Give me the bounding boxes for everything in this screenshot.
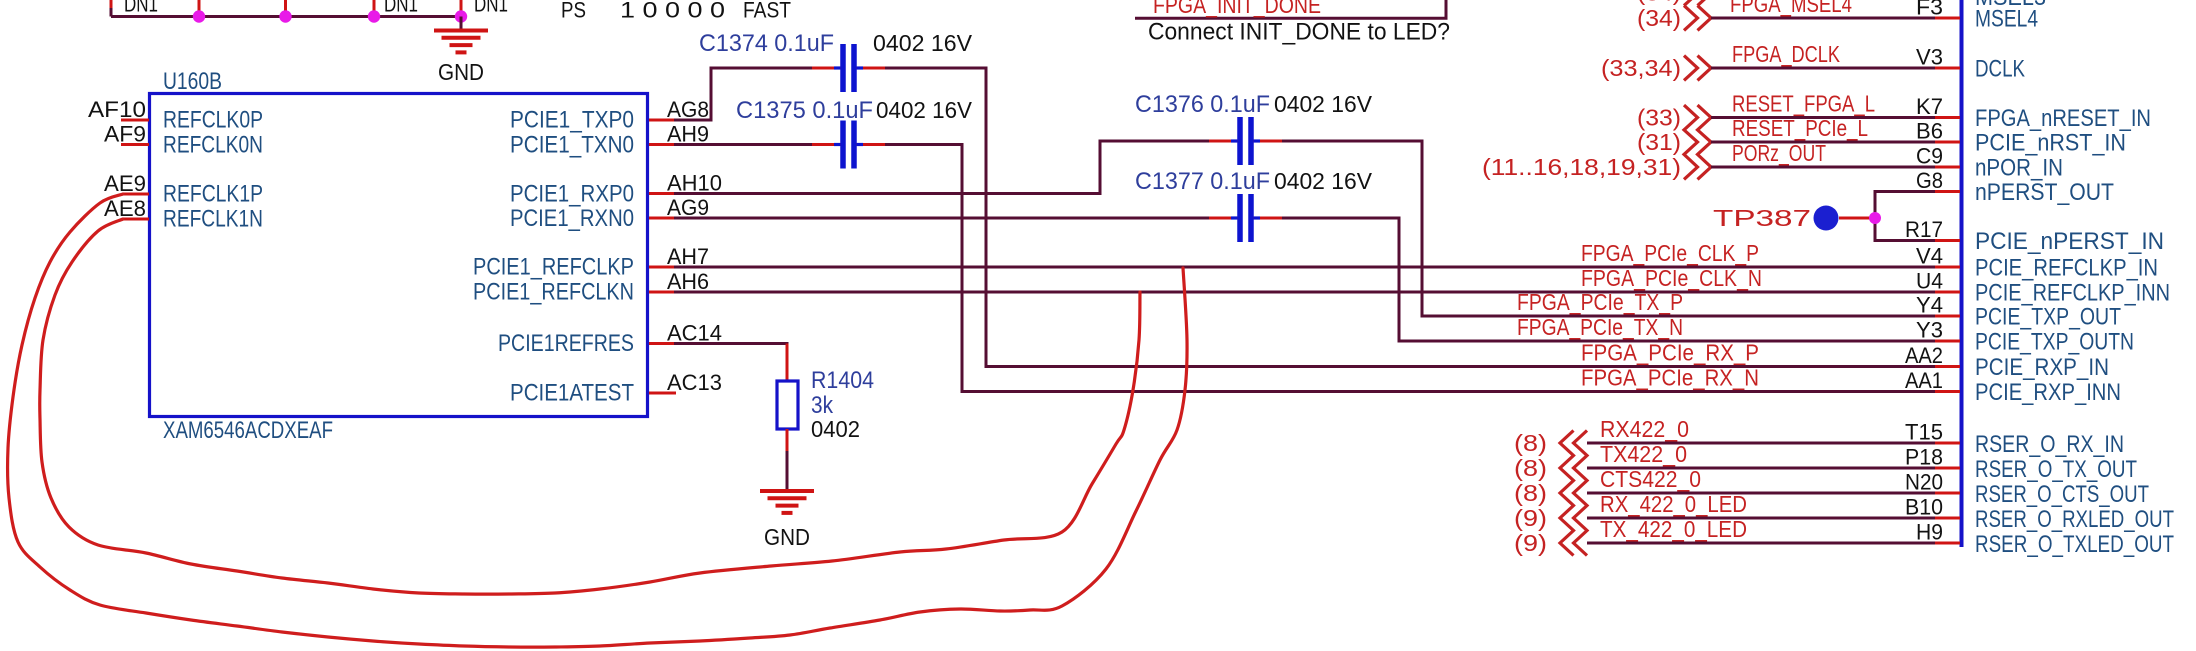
svg-text:RX422_0: RX422_0 (1600, 416, 1689, 442)
svg-text:DN1: DN1 (474, 0, 508, 17)
svg-text:V4: V4 (1916, 244, 1943, 269)
svg-text:DCLK: DCLK (1975, 56, 2025, 83)
capacitor C1374 (840, 44, 846, 92)
svg-text:AH7: AH7 (667, 244, 709, 269)
wire AG9 to C1377 (674, 217, 1228, 220)
svg-text:U4: U4 (1916, 269, 1943, 294)
svg-text:nPOR_IN: nPOR_IN (1975, 155, 2063, 182)
svg-text:FAST: FAST (743, 0, 791, 23)
pin stub red at C1374 right (856, 67, 885, 70)
capacitor C1375 (840, 121, 846, 169)
svg-text:G8: G8 (1916, 168, 1943, 193)
svg-text:C9: C9 (1916, 144, 1943, 169)
svg-text:PCIE_TXP_OUT: PCIE_TXP_OUT (1975, 304, 2121, 331)
pin G8 stub (1935, 190, 1960, 193)
wire AH7 to PCIE_REFCLKP_IN (FPGA_PCIe_CLK_P) (674, 266, 1937, 269)
pin AE9 stub (123, 193, 149, 196)
ground symbol (R1404) (760, 489, 814, 493)
svg-text:FPGA_MSEL4: FPGA_MSEL4 (1730, 0, 1852, 17)
svg-text:N20: N20 (1905, 470, 1943, 495)
pin stub F3 (1935, 17, 1960, 20)
svg-text:R17: R17 (1905, 217, 1943, 242)
wire net FPGA_DCLK (1711, 67, 1937, 70)
svg-text:TX_422_0_LED: TX_422_0_LED (1600, 516, 1747, 542)
pin AE8 stub (123, 218, 149, 221)
svg-text:0402 16V: 0402 16V (876, 97, 973, 123)
svg-text:(8): (8) (1514, 480, 1547, 506)
pin R17 stub (1935, 239, 1960, 242)
svg-text:3k: 3k (811, 392, 834, 419)
svg-text:REFCLK0P: REFCLK0P (163, 107, 263, 134)
pin AF9 stub (121, 143, 149, 146)
pin stub AA1 (1935, 390, 1960, 393)
svg-text:TX422_0: TX422_0 (1600, 441, 1687, 467)
svg-text:GND: GND (438, 59, 484, 85)
svg-text:PCIE_RXP_INN: PCIE_RXP_INN (1975, 379, 2121, 406)
pin AG8 stub (649, 119, 674, 122)
svg-text:PORz_OUT: PORz_OUT (1732, 140, 1826, 166)
junction dot 3 (368, 10, 380, 22)
zigzag off-page chevron MSEL4 row (1684, 6, 1698, 31)
wire net RESET_PCIe_L (1711, 141, 1937, 144)
svg-text:U160B: U160B (163, 68, 222, 95)
svg-text:PCIE1_RXN0: PCIE1_RXN0 (510, 205, 634, 232)
test point TP387 (1814, 206, 1839, 231)
svg-text:P18: P18 (1905, 445, 1943, 470)
svg-text:RSER_O_RXLED_OUT: RSER_O_RXLED_OUT (1975, 506, 2174, 533)
svg-text:F3: F3 (1916, 0, 1943, 20)
svg-text:V3: V3 (1916, 45, 1943, 70)
IC U160B (XAM6546ACDXEAF) symbol box (150, 94, 648, 417)
pin stub (red) top-left vertical 1 (110, 0, 113, 8)
svg-text:0402 16V: 0402 16V (1274, 168, 1373, 194)
wire net RX422_0 (1587, 442, 1937, 445)
svg-text:PCIE1_RXP0: PCIE1_RXP0 (510, 181, 634, 208)
svg-text:0402 16V: 0402 16V (873, 30, 973, 56)
svg-text:RSER_O_CTS_OUT: RSER_O_CTS_OUT (1975, 481, 2149, 508)
svg-text:AC13: AC13 (667, 370, 722, 395)
wire C1374 right to RX_P row (866, 68, 1937, 367)
svg-text:H9: H9 (1916, 520, 1943, 545)
pin AH6 stub (649, 291, 674, 294)
ground symbol (top) (434, 29, 488, 33)
svg-text:FPGA_nRESET_IN: FPGA_nRESET_IN (1975, 105, 2151, 132)
pin stub V4 (1935, 266, 1960, 269)
svg-text:RSER_O_TX_OUT: RSER_O_TX_OUT (1975, 456, 2137, 483)
svg-text:FPGA_PCIe_TX_P: FPGA_PCIe_TX_P (1517, 289, 1683, 315)
svg-text:PCIE_RXP_IN: PCIE_RXP_IN (1975, 354, 2109, 381)
svg-text:T15: T15 (1905, 420, 1943, 445)
pin AG9 stub (649, 217, 674, 220)
pin stub (red) vertical above junction 1 (198, 0, 201, 13)
pin stub AA2 (1935, 365, 1960, 368)
svg-text:AH6: AH6 (667, 269, 709, 294)
pin stub P18 (1935, 467, 1960, 470)
svg-text:MSEL4: MSEL4 (1975, 6, 2038, 33)
junction dot 2 (279, 10, 291, 22)
pin stub red at C1375 left (812, 143, 841, 146)
svg-text:PCIE_nPERST_IN: PCIE_nPERST_IN (1975, 228, 2164, 255)
svg-text:PCIE_TXP_OUTN: PCIE_TXP_OUTN (1975, 329, 2134, 356)
svg-text:FPGA_PCIe_CLK_N: FPGA_PCIe_CLK_N (1581, 265, 1762, 291)
svg-text:AF9: AF9 (104, 122, 146, 147)
pin stub (red) vertical above junction 4 (460, 0, 463, 13)
pin stub Y4 (1935, 315, 1960, 318)
wire AH10 to C1376 (674, 141, 1228, 194)
svg-text:0402 16V: 0402 16V (1274, 91, 1373, 117)
svg-text:RESET_PCIe_L: RESET_PCIe_L (1732, 115, 1868, 141)
svg-text:REFCLK1P: REFCLK1P (163, 181, 263, 208)
wire R1404 to ground (786, 451, 789, 490)
svg-text:AA1: AA1 (1905, 368, 1943, 393)
svg-text:PCIE_REFCLKP_INN: PCIE_REFCLKP_INN (1975, 280, 2170, 307)
zigzag off-page chevron DCLK row (1684, 56, 1698, 81)
pin stub red at C1376 right (1253, 140, 1282, 143)
svg-text:C1376 0.1uF: C1376 0.1uF (1135, 91, 1270, 118)
svg-text:(33,34): (33,34) (1601, 55, 1681, 81)
junction dot 4 (455, 10, 467, 22)
svg-text:(11..16,18,19,31): (11..16,18,19,31) (1482, 154, 1681, 180)
zigzag off-page chevron partial (clipped top row) (1684, 0, 1711, 6)
svg-text:FPGA_PCIe_TX_N: FPGA_PCIe_TX_N (1517, 314, 1683, 340)
svg-text:XAM6546ACDXEAF: XAM6546ACDXEAF (163, 417, 333, 444)
wire net RX_422_0_LED (1587, 517, 1937, 520)
svg-text:K7: K7 (1916, 94, 1943, 119)
junction dot 1 (193, 10, 205, 22)
wire net FPGA_MSEL4 (1711, 17, 1937, 20)
pin AC14 stub (649, 342, 674, 345)
svg-text:Connect INIT_DONE to LED?: Connect INIT_DONE to LED? (1148, 19, 1450, 46)
pin AH7 stub (649, 266, 674, 269)
svg-text:PCIE_nRST_IN: PCIE_nRST_IN (1975, 130, 2126, 157)
wire AG8 to C1374 (674, 68, 831, 120)
svg-text:RSER_O_RX_IN: RSER_O_RX_IN (1975, 431, 2124, 458)
wire AH6 to PCIE_REFCLKP_INN (FPGA_PCIe_CLK_N) (674, 291, 1937, 294)
wire GND drop (460, 17, 463, 30)
svg-text:PS: PS (561, 0, 586, 23)
pin stub U4 (1935, 291, 1960, 294)
svg-text:R1404: R1404 (811, 367, 874, 394)
svg-text:PCIE1_TXP0: PCIE1_TXP0 (510, 107, 634, 134)
wire net TX_422_0_LED (1587, 542, 1937, 545)
svg-text:PCIE1REFRES: PCIE1REFRES (498, 330, 634, 357)
svg-text:AA2: AA2 (1905, 343, 1943, 368)
wire FPGA_INIT_DONE underline box (1135, 0, 1446, 18)
wire red curve REFCLK1N (AE8 to FPGA_PCIe_CLK_N) (40, 219, 1140, 594)
svg-text:FPGA_PCIe_CLK_P: FPGA_PCIe_CLK_P (1581, 240, 1759, 266)
svg-text:PCIE1ATEST: PCIE1ATEST (510, 380, 634, 407)
zigzag off-page chevron chain RS422 rows (1560, 431, 1574, 556)
svg-text:PCIE1_TXN0: PCIE1_TXN0 (510, 132, 634, 159)
wire net TX422_0 (1587, 467, 1937, 470)
wire C1377 right to TX_N row (1263, 218, 1937, 341)
svg-text:B10: B10 (1905, 495, 1943, 520)
svg-text:RSER_O_TXLED_OUT: RSER_O_TXLED_OUT (1975, 531, 2174, 558)
svg-text:(34): (34) (1637, 5, 1681, 31)
pin stub (red) vertical above junction 2 (284, 0, 287, 13)
svg-text:0402: 0402 (811, 416, 860, 442)
svg-text:B6: B6 (1916, 119, 1943, 144)
pin stub red at C1375 right (856, 143, 885, 146)
svg-text:Y4: Y4 (1916, 293, 1943, 318)
svg-text:C1374 0.1uF: C1374 0.1uF (699, 30, 834, 57)
wire AH9 to C1375 (674, 143, 831, 146)
pin AF10 stub (121, 119, 149, 122)
pin stub H9 (1935, 542, 1960, 545)
pin stub red below R1404 (786, 429, 789, 453)
wire net CTS422_0 (1587, 492, 1937, 495)
wire nPERST_OUT G8 to R17 via TP387 junction (1875, 192, 1935, 241)
pin stub C9 (1935, 166, 1960, 169)
wire AC14 to R1404 (674, 342, 789, 345)
svg-text:1 0 0 0 0: 1 0 0 0 0 (620, 0, 725, 23)
FPGA symbol box edge (right) (1960, 0, 1964, 547)
pin stub B10 (1935, 517, 1960, 520)
pin stub V3 (1935, 67, 1960, 70)
svg-text:GND: GND (764, 524, 810, 550)
svg-text:AG9: AG9 (667, 195, 709, 220)
svg-text:(31): (31) (1637, 129, 1681, 155)
wire C1376 right to TX_P row (1263, 141, 1937, 316)
svg-text:DN1: DN1 (384, 0, 418, 17)
svg-text:(9): (9) (1514, 505, 1547, 531)
svg-text:FPGA_PCIe_RX_N: FPGA_PCIe_RX_N (1581, 365, 1759, 391)
svg-text:C1375 0.1uF: C1375 0.1uF (736, 97, 873, 124)
svg-text:REFCLK1N: REFCLK1N (163, 206, 263, 233)
svg-text:PCIE1_REFCLKN: PCIE1_REFCLKN (473, 279, 634, 306)
svg-text:CTS422_0: CTS422_0 (1600, 466, 1701, 492)
wire top-left horizontal net with DN1 stubs (111, 15, 461, 18)
svg-text:RESET_FPGA_L: RESET_FPGA_L (1732, 91, 1875, 117)
pin stub N20 (1935, 492, 1960, 495)
pin stub T15 (1935, 442, 1960, 445)
wire red curve REFCLK1P (AE9 to FPGA_PCIe_CLK_P) (8, 194, 1188, 647)
pin stub B6 (1935, 141, 1960, 144)
svg-text:RX_422_0_LED: RX_422_0_LED (1600, 491, 1747, 517)
capacitor C1377 (1237, 194, 1243, 242)
pin stub red above R1404 (786, 344, 789, 382)
wire net RESET_FPGA_L (1711, 116, 1937, 119)
svg-text:PCIE1_REFCLKP: PCIE1_REFCLKP (473, 254, 634, 281)
svg-text:AH10: AH10 (667, 171, 722, 196)
junction dot TP387 net (1869, 212, 1881, 224)
pin stub red at C1377 left (1209, 217, 1238, 220)
svg-text:TP387: TP387 (1713, 205, 1811, 231)
svg-text:(8): (8) (1514, 430, 1547, 456)
pin AC13 stub (649, 392, 676, 395)
svg-text:FPGA_DCLK: FPGA_DCLK (1732, 41, 1841, 67)
pin stub red at C1376 left (1209, 140, 1238, 143)
svg-text:C1377 0.1uF: C1377 0.1uF (1135, 168, 1270, 195)
svg-text:AG8: AG8 (667, 97, 709, 122)
capacitor C1376 (1237, 117, 1243, 165)
pin stub red at C1377 right (1253, 217, 1282, 220)
svg-text:DN1: DN1 (124, 0, 158, 17)
wire test point connection (1839, 217, 1875, 220)
wire net PORz_OUT (1711, 166, 1937, 169)
pin stub (red) vertical above junction 3 (373, 0, 376, 13)
pin AH9 stub (649, 143, 674, 146)
svg-text:FPGA_PCIe_RX_P: FPGA_PCIe_RX_P (1581, 340, 1759, 366)
svg-text:(33): (33) (1637, 105, 1681, 131)
svg-text:AH9: AH9 (667, 122, 709, 147)
svg-text:(9): (9) (1514, 530, 1547, 556)
svg-text:Y3: Y3 (1916, 318, 1943, 343)
pin stub red at C1374 left (812, 67, 841, 70)
zigzag off-page chevron chain K7/B6/C9 rows (1684, 105, 1698, 179)
svg-text:PCIE_REFCLKP_IN: PCIE_REFCLKP_IN (1975, 255, 2158, 282)
resistor R1404 (777, 381, 798, 429)
svg-text:nPERST_OUT: nPERST_OUT (1975, 179, 2114, 206)
wire C1375 right to RX_N row (866, 145, 1937, 392)
svg-text:AF10: AF10 (88, 97, 146, 122)
svg-text:AC14: AC14 (667, 321, 722, 346)
svg-text:FPGA_INIT_DONE: FPGA_INIT_DONE (1153, 0, 1321, 18)
svg-text:REFCLK0N: REFCLK0N (163, 132, 263, 159)
svg-text:(8): (8) (1514, 455, 1547, 481)
pin stub Y3 (1935, 340, 1960, 343)
pin stub K7 (1935, 116, 1960, 119)
svg-text:AE9: AE9 (104, 171, 146, 196)
pin AH10 stub (649, 192, 674, 195)
svg-text:AE8: AE8 (104, 196, 146, 221)
